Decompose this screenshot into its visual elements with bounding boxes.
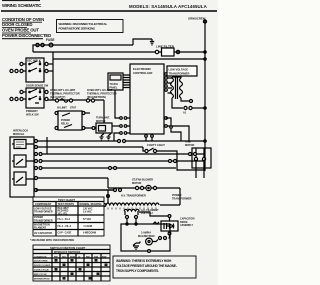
switch S4 in module xyxy=(14,172,26,185)
svg-text:CONDITION OF OVEN: CONDITION OF OVEN xyxy=(2,17,44,22)
svg-text:HV CAPACITOR: HV CAPACITOR xyxy=(34,232,52,235)
svg-text:WIRING SCHEMATIC: WIRING SCHEMATIC xyxy=(2,3,41,8)
svg-text:MOTOR: MOTOR xyxy=(185,144,194,147)
wire filament drops xyxy=(126,223,128,225)
svg-text:INTERLOCK SWITCHES: INTERLOCK SWITCHES xyxy=(54,252,81,254)
svg-text:MOTOR: MOTOR xyxy=(132,182,141,185)
svg-text:TIM: TIM xyxy=(94,256,98,258)
svg-text:OVEN INT'L HI LIMIT: OVEN INT'L HI LIMIT xyxy=(50,88,76,92)
relay K1 power relay xyxy=(58,111,82,130)
svg-text:RELAY: RELAY xyxy=(61,122,69,125)
connector on hot lead xyxy=(36,43,39,46)
wire stirrer feed xyxy=(107,178,109,188)
svg-text:TRANSFORMER: TRANSFORMER xyxy=(34,219,53,222)
svg-text:FAN: FAN xyxy=(102,255,107,258)
wire bus L1 y52 xyxy=(33,51,205,53)
capacitor C1 / diode D1 assembly xyxy=(153,222,159,224)
node junction L1/right bus xyxy=(204,51,206,53)
scan artifact top edge xyxy=(2,0,40,1)
svg-text:TRANSFORMER: TRANSFORMER xyxy=(172,197,192,200)
warning box disconnect power xyxy=(57,20,124,33)
module vertical feed xyxy=(46,137,48,154)
svg-text:GRN/SCREW: GRN/SCREW xyxy=(188,17,206,21)
svg-text:CONDITION: CONDITION xyxy=(34,256,47,258)
svg-text:VOLTAGE PRESENT AROUND THE MAG: VOLTAGE PRESENT AROUND THE MAGNE- xyxy=(116,264,177,268)
wire drop to turntable motor xyxy=(103,100,105,123)
ribbon cable xyxy=(123,75,130,88)
transformer T2 filament winding xyxy=(124,209,139,211)
wire bus N y59 xyxy=(53,52,205,59)
controller left pins xyxy=(124,117,127,120)
wire HV feed y190 xyxy=(114,189,117,192)
svg-text:ASSEMBLY: ASSEMBLY xyxy=(180,224,193,227)
marks in chart xyxy=(55,259,108,280)
svg-text:INTERLOCK: INTERLOCK xyxy=(13,129,28,133)
svg-text:(1/4 CAVITY): (1/4 CAVITY) xyxy=(50,95,66,99)
svg-text:WARNING: THERE IS EXTREMELY H: WARNING: THERE IS EXTREMELY HIGH xyxy=(116,259,172,263)
wire controller right drop xyxy=(166,118,171,125)
svg-text:SEC INTLK: SEC INTLK xyxy=(27,59,41,63)
svg-text:TEST CHART: TEST CHART xyxy=(58,198,75,202)
svg-text:2.9 VAC: 2.9 VAC xyxy=(83,211,92,214)
svg-text:MOTOR: MOTOR xyxy=(96,120,105,123)
fuse F1 xyxy=(49,43,53,47)
svg-text:MON: MON xyxy=(70,256,76,258)
wire right bus x205 xyxy=(204,22,206,171)
svg-text:MODELS: SA1465ULA AFC1465ULA: MODELS: SA1465ULA AFC1465ULA xyxy=(129,4,208,9)
svg-text:DOOR SENSE SW: DOOR SENSE SW xyxy=(26,84,49,88)
svg-text:CAVITY LIGHT: CAVITY LIGHT xyxy=(147,143,165,147)
table test chart xyxy=(30,197,104,242)
svg-text:VOLTS 4.2: VOLTS 4.2 xyxy=(141,212,153,215)
svg-text:FIL-1 - FIL-2: FIL-1 - FIL-2 xyxy=(58,225,72,228)
thermal protector TP2 connectors xyxy=(86,99,89,102)
svg-text:H.V. TRANSFORMER: H.V. TRANSFORMER xyxy=(121,195,146,198)
module pin row y161 xyxy=(35,160,38,163)
svg-text:WARNING: DISCONNECT ELECTRICA: WARNING: DISCONNECT ELECTRICAL xyxy=(59,22,108,26)
module pin row y154 xyxy=(35,153,38,156)
svg-text:FUSE: FUSE xyxy=(46,38,55,42)
switch S2 primary interlock xyxy=(26,88,44,108)
node HV junction xyxy=(107,195,110,198)
module pin row y168 xyxy=(35,167,38,170)
svg-text:PANEL: PANEL xyxy=(110,87,118,90)
svg-text:POWER BEFORE SERVICING: POWER BEFORE SERVICING xyxy=(59,27,96,31)
svg-text:INTERRUPTED: INTERRUPTED xyxy=(34,279,50,281)
svg-text:COMPONENT: COMPONENT xyxy=(35,203,52,206)
svg-text:YEL-YEL: YEL-YEL xyxy=(58,212,69,215)
svg-text:HI LIMIT: HI LIMIT xyxy=(57,107,67,110)
svg-text:FILAMENT: FILAMENT xyxy=(34,227,47,230)
svg-text:NORMAL READING: NORMAL READING xyxy=(80,203,102,206)
wires in module xyxy=(12,144,34,179)
relay K2 in module xyxy=(14,140,26,149)
wire line cord hot y45 xyxy=(33,45,133,52)
wire touch panel to relay pins xyxy=(115,90,120,118)
module pin row y190 xyxy=(35,189,38,192)
svg-text:STAT: STAT xyxy=(70,107,77,110)
ground probe jack xyxy=(100,134,105,141)
wire diode to magnetron xyxy=(168,232,171,235)
svg-text:DOOR OPEN: DOOR OPEN xyxy=(34,261,48,263)
module pin row y178 xyxy=(35,177,38,180)
svg-text:SEC: SEC xyxy=(62,256,67,258)
touch panel xyxy=(108,73,123,90)
transformer T1 low voltage xyxy=(167,66,197,76)
module pin row y147 xyxy=(35,146,38,149)
svg-text:COOK CYCLE: COOK CYCLE xyxy=(34,270,49,272)
thermal protector TP1 xyxy=(55,99,58,102)
switch S3 in module xyxy=(14,155,26,167)
svg-text:<1 OHM: <1 OHM xyxy=(83,225,92,228)
svg-text:CONTROLLER: CONTROLLER xyxy=(133,71,152,75)
svg-text:TRANSFORMER: TRANSFORMER xyxy=(169,72,190,76)
svg-text:END CYCLE: END CYCLE xyxy=(34,274,47,276)
controller bottom pins xyxy=(145,135,148,138)
svg-text:POWER DISCONNECTED: POWER DISCONNECTED xyxy=(2,33,51,38)
svg-text:SWITCH FUNCTION CHART: SWITCH FUNCTION CHART xyxy=(50,246,86,250)
controller right pins xyxy=(165,73,168,76)
svg-text:TRON SUPPLY COMPONENTS.: TRON SUPPLY COMPONENTS. xyxy=(116,269,159,273)
label thermal protector cavity xyxy=(50,88,117,99)
node N bus junction xyxy=(204,58,206,60)
svg-text:THERMAL PROTECTOR: THERMAL PROTECTOR xyxy=(87,92,117,96)
controller U1 electronic controller xyxy=(130,64,164,134)
svg-text:LOW VOLTAGE: LOW VOLTAGE xyxy=(169,68,189,72)
warning box high voltage xyxy=(113,256,196,278)
magnetron V1 xyxy=(121,224,170,251)
svg-text:OVEN PROBE OUT: OVEN PROBE OUT xyxy=(2,28,39,33)
svg-text:57 VAC: 57 VAC xyxy=(83,218,91,221)
power cord chassis ground xyxy=(133,39,150,45)
connector CN2 xyxy=(118,140,121,143)
connector AC line to LVT xyxy=(172,98,183,108)
node magnetron cathode xyxy=(148,250,151,253)
wire S1 to N bus xyxy=(48,63,53,65)
switch S1 secondary interlock xyxy=(26,58,44,82)
svg-text:DOOR CLOSED: DOOR CLOSED xyxy=(2,22,32,27)
ground magnetron xyxy=(133,242,140,250)
svg-text:MAGNETRON: MAGNETRON xyxy=(138,235,155,238)
node right bus top terminal xyxy=(203,20,206,23)
svg-text:(MAGNETRON): (MAGNETRON) xyxy=(87,95,106,99)
svg-text:TEST POINTS: TEST POINTS xyxy=(58,203,75,206)
svg-text:MODULE: MODULE xyxy=(13,132,25,136)
svg-text:CAP - CASE: CAP - CASE xyxy=(58,232,72,235)
svg-text:* MEASURED WITH OVEN OPERATING: * MEASURED WITH OVEN OPERATING xyxy=(30,239,74,242)
wire interlock chain y100 xyxy=(48,99,104,101)
svg-text:DOOR CLOSED: DOOR CLOSED xyxy=(34,265,51,267)
svg-text:9 MEGOHM: 9 MEGOHM xyxy=(83,232,96,235)
table switch function chart xyxy=(33,245,110,281)
svg-text:THERMAL PROTECTOR: THERMAL PROTECTOR xyxy=(50,92,80,96)
svg-text:PRI: PRI xyxy=(54,256,58,258)
module pin row y141 xyxy=(35,140,38,143)
svg-text:FA-1 - FA-2: FA-1 - FA-2 xyxy=(58,218,71,221)
note: condition of oven block xyxy=(2,17,51,39)
svg-text:PRIMARY: PRIMARY xyxy=(26,109,38,113)
wire LVT secondary xyxy=(181,98,189,101)
header rule xyxy=(1,10,217,12)
svg-text:TRANSFORMER: TRANSFORMER xyxy=(34,211,53,214)
svg-text:REL: REL xyxy=(86,256,91,258)
svg-text:INTLK SW: INTLK SW xyxy=(26,113,39,117)
